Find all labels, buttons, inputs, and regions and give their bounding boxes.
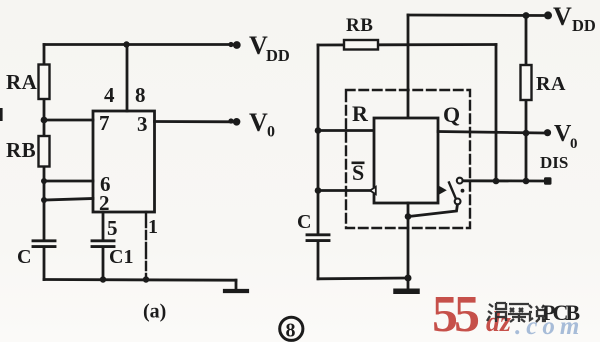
svg-text:(a): (a) — [143, 301, 166, 323]
svg-text:Q: Q — [443, 102, 460, 127]
svg-text:DD: DD — [572, 16, 596, 35]
svg-text:RA: RA — [6, 70, 38, 94]
svg-text:DIS: DIS — [540, 153, 568, 172]
svg-text:55: 55 — [432, 286, 479, 342]
svg-text:8: 8 — [286, 320, 296, 342]
svg-text:C: C — [17, 246, 31, 268]
svg-text:4: 4 — [104, 83, 115, 107]
svg-text:RA: RA — [536, 73, 566, 95]
svg-text:V: V — [553, 2, 572, 31]
svg-text:3: 3 — [137, 112, 148, 136]
svg-text:C: C — [297, 211, 311, 233]
svg-text:RB: RB — [346, 15, 373, 36]
svg-text:7: 7 — [99, 111, 110, 135]
svg-text:V: V — [249, 108, 268, 137]
svg-text:1: 1 — [148, 216, 158, 238]
svg-text:5: 5 — [107, 216, 118, 240]
svg-text:0: 0 — [570, 136, 578, 152]
svg-text:RB: RB — [6, 138, 36, 162]
svg-text:2: 2 — [99, 191, 110, 215]
svg-text:8: 8 — [135, 83, 146, 107]
svg-text:0: 0 — [267, 124, 275, 141]
svg-text:R: R — [352, 101, 369, 126]
svg-text:C1: C1 — [109, 246, 133, 268]
svg-text:DD: DD — [266, 46, 290, 65]
svg-text:.com: .com — [515, 313, 584, 340]
